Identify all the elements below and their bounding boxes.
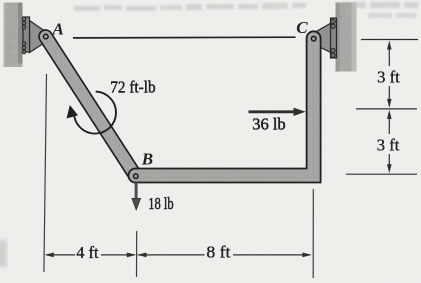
dimension ticks right (346, 40, 418, 175)
pin C (311, 36, 316, 41)
member AB (diagonal bar) (46, 37, 136, 176)
ghost print-through smudges (top) (74, 2, 418, 18)
support bracket A: bolts (22, 17, 26, 54)
force 36 lb arrow (249, 108, 306, 116)
support bracket C: gusset (315, 23, 331, 53)
extension line right (below corner) (312, 189, 314, 278)
support bracket C: plate (331, 18, 337, 58)
wall (right) (336, 3, 357, 72)
support bracket A: gusset (30, 21, 45, 53)
support bracket A: plate (23, 17, 30, 52)
moment arrowhead (67, 105, 78, 119)
force 18 lb arrow (132, 183, 141, 211)
member BC (horizontal + vertical bar, L-shaped) (136, 38, 314, 175)
wall (left) (4, 3, 23, 68)
dimension 4 ft (46, 254, 135, 256)
dimension 8 ft (138, 254, 311, 256)
pin B (134, 174, 139, 179)
ghost smudge left edge (0, 240, 7, 267)
extension line left (below A) (44, 74, 47, 272)
pin A (44, 34, 49, 39)
moment arc 72 ft-lb (74, 92, 116, 134)
extension line middle (below B) (136, 231, 138, 277)
dimension 3 ft (lower) (388, 118, 390, 166)
wire AC (cord from A to C) (73, 36, 296, 39)
support bracket C: bolts (331, 19, 335, 57)
dimension 3 ft (upper) (388, 48, 390, 100)
